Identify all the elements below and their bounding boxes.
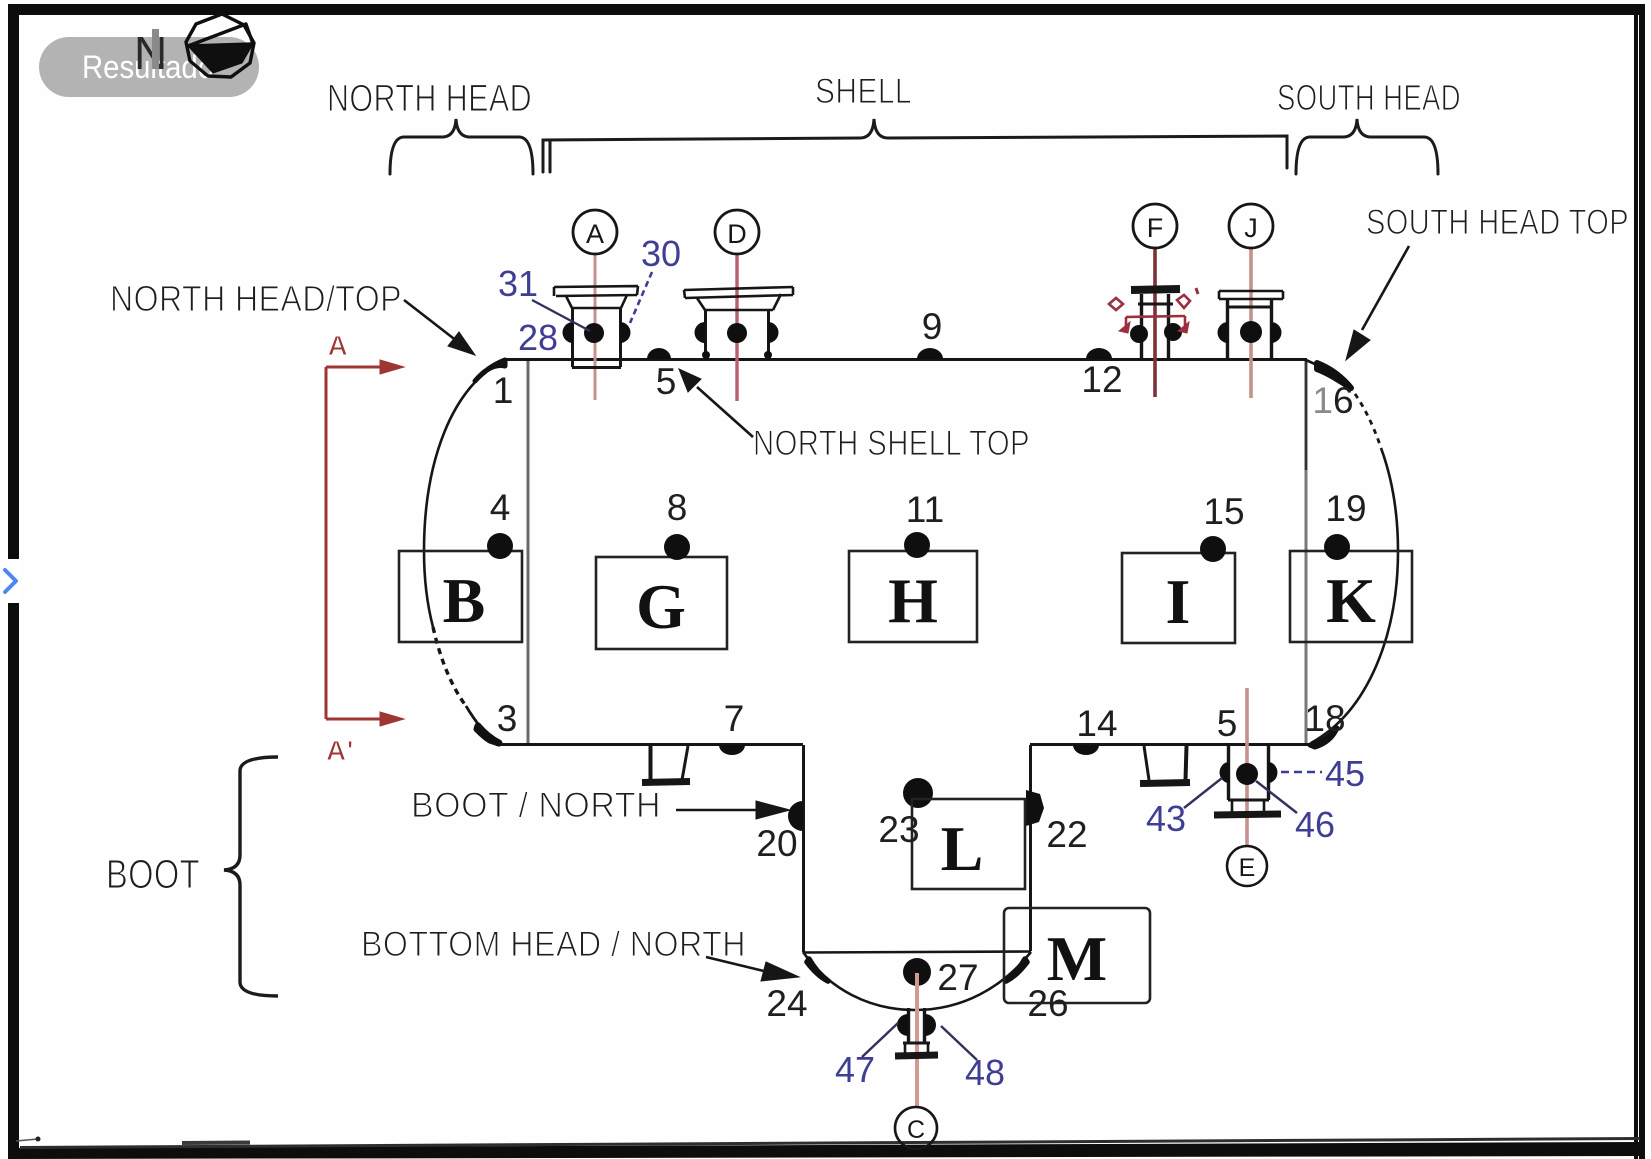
section box L <box>912 799 1025 889</box>
svg-text:NORTH SHELL TOP: NORTH SHELL TOP <box>753 424 1030 463</box>
north head curve <box>424 360 505 627</box>
boot bottom tangent line <box>803 952 1031 953</box>
south head seam weld line <box>1305 361 1308 743</box>
weld wedge 1 north head top <box>475 360 505 381</box>
nozzle E weld dots <box>1236 763 1258 785</box>
svg-text:E: E <box>1239 854 1256 882</box>
weld dot 15 <box>1200 536 1226 562</box>
leader line 46 <box>1256 781 1297 813</box>
arrow north head top <box>404 300 462 345</box>
svg-text:20: 20 <box>756 823 797 864</box>
north head curve tail <box>466 706 496 743</box>
svg-text:SOUTH HEAD TOP: SOUTH HEAD TOP <box>1366 203 1629 242</box>
weld wedge 3 north head bottom <box>477 726 499 743</box>
shell brace <box>543 119 1287 172</box>
north head seam weld line <box>527 361 530 743</box>
nozzle D tag circle <box>715 210 759 254</box>
nozzle C body <box>895 1008 938 1056</box>
compass rose <box>186 14 254 77</box>
svg-text:28: 28 <box>518 317 558 358</box>
svg-text:D: D <box>727 219 747 249</box>
weld wedge 26 boot dish east <box>1006 959 1027 981</box>
arrow south head top <box>1362 246 1409 330</box>
nozzle F weld dots <box>1130 325 1148 343</box>
svg-text:5: 5 <box>1217 703 1238 744</box>
leader line 30 <box>630 272 652 323</box>
north head curve dashed part <box>433 627 466 706</box>
south head curve main <box>1311 448 1398 743</box>
svg-text:45: 45 <box>1325 753 1365 794</box>
svg-text:48: 48 <box>965 1052 1005 1093</box>
nozzle C tag circle <box>895 1107 937 1149</box>
weld wedge 24 boot dish west <box>807 959 828 981</box>
arrow north shell top <box>697 387 753 437</box>
compass needle <box>188 44 253 73</box>
svg-text:N: N <box>134 27 167 79</box>
north head brace <box>390 119 533 174</box>
svg-text:3: 3 <box>497 698 518 739</box>
section cut line A <box>326 360 404 726</box>
nozzle F centerline <box>1153 248 1157 397</box>
svg-text:A': A' <box>326 735 354 766</box>
weld dot 23 <box>903 778 933 808</box>
boot bottom head dish <box>803 952 1031 1010</box>
svg-text:23: 23 <box>878 809 919 850</box>
nozzle D centerline <box>735 254 738 401</box>
section box I <box>1122 553 1235 643</box>
nozzle F tag circle <box>1133 204 1177 248</box>
svg-text:4: 4 <box>490 487 511 528</box>
svg-text:L: L <box>941 813 984 884</box>
section box M <box>1004 908 1150 1003</box>
leader line 47 <box>862 1023 898 1057</box>
svg-text:SOUTH HEAD: SOUTH HEAD <box>1277 77 1461 118</box>
svg-text:16: 16 <box>1312 380 1353 421</box>
section box H <box>849 551 977 642</box>
svg-text:46: 46 <box>1295 804 1335 845</box>
svg-text:BOTTOM HEAD / NORTH: BOTTOM HEAD / NORTH <box>361 925 746 964</box>
svg-text:A: A <box>586 219 604 249</box>
nozzle A centerline <box>594 254 597 400</box>
svg-text:30: 30 <box>641 233 681 274</box>
arrow bottom head north <box>706 957 768 972</box>
boot west wall <box>802 745 805 952</box>
svg-text:18: 18 <box>1304 698 1345 739</box>
weld dot 8 <box>664 534 690 560</box>
nozzle D weld dots <box>727 323 747 343</box>
weld dot 19 <box>1324 534 1350 560</box>
svg-text:24: 24 <box>766 983 807 1024</box>
shell top line <box>503 358 1307 361</box>
svg-text:SHELL: SHELL <box>815 72 912 111</box>
shell bottom line west <box>496 743 803 746</box>
weld dot 27 <box>903 958 931 986</box>
south head curve dashed part <box>1349 386 1381 448</box>
weld bump 9 <box>917 348 943 359</box>
section box B <box>399 551 522 642</box>
svg-text:12: 12 <box>1081 359 1122 400</box>
svg-text:9: 9 <box>922 306 943 347</box>
svg-text:15: 15 <box>1203 491 1244 532</box>
svg-text:I: I <box>1166 566 1191 637</box>
nozzle C centerline <box>915 973 919 1107</box>
svg-text:8: 8 <box>667 487 688 528</box>
svg-text:B: B <box>443 565 486 636</box>
nozzle J centerline <box>1249 248 1253 398</box>
support saddle east <box>1140 746 1190 784</box>
boot brace <box>224 757 278 996</box>
weld wedge 18 south head bottom <box>1310 728 1337 747</box>
svg-text:11: 11 <box>906 489 944 530</box>
leader line 43 <box>1184 778 1222 808</box>
svg-text:C: C <box>907 1116 925 1144</box>
weld bump 7 <box>719 745 745 755</box>
svg-text:26: 26 <box>1027 983 1068 1024</box>
svg-text:BOOT: BOOT <box>106 851 200 897</box>
svg-text:A: A <box>328 330 349 361</box>
south head brace <box>1296 119 1438 174</box>
nozzle A tag circle <box>573 210 617 254</box>
svg-text:27: 27 <box>937 957 978 998</box>
nozzle E centerline <box>1245 688 1249 846</box>
svg-text:NORTH HEAD/TOP: NORTH HEAD/TOP <box>110 278 402 319</box>
nozzle A body <box>554 286 638 368</box>
sidebar chevron <box>5 570 16 592</box>
svg-text:J: J <box>1244 213 1258 243</box>
svg-text:19: 19 <box>1325 488 1366 529</box>
nozzle A weld dots <box>584 323 604 343</box>
svg-text:K: K <box>1326 565 1376 636</box>
weld dot 20 on boot west wall <box>788 801 803 831</box>
svg-text:5: 5 <box>656 361 677 402</box>
section box K <box>1290 551 1412 642</box>
weld dot 22 on boot east wall <box>1026 790 1044 826</box>
support saddle west <box>642 746 690 783</box>
svg-text:14: 14 <box>1076 703 1117 744</box>
nozzle E tag circle <box>1227 846 1267 886</box>
leader line 31 <box>532 300 590 331</box>
nozzle J body <box>1219 291 1283 359</box>
svg-text:31: 31 <box>498 263 538 304</box>
boot east wall <box>1029 745 1032 951</box>
nozzle F red inspection marks <box>1109 288 1198 333</box>
nozzle J weld dots <box>1240 321 1262 343</box>
svg-text:F: F <box>1147 213 1164 243</box>
leader line 48 <box>941 1026 977 1060</box>
weld wedge 16 south head top <box>1317 363 1351 388</box>
weld bump 12 <box>1086 348 1112 359</box>
svg-text:43: 43 <box>1146 798 1186 839</box>
leader line 45 <box>1281 771 1322 774</box>
svg-text:BOOT / NORTH: BOOT / NORTH <box>411 786 661 825</box>
svg-text:1: 1 <box>493 370 514 411</box>
weld dot 11 <box>904 532 930 558</box>
nozzle J tag circle <box>1229 204 1273 248</box>
nozzle D body <box>684 287 793 359</box>
shell bottom line east <box>1030 743 1311 746</box>
weld bump 14 <box>1073 745 1099 755</box>
nozzle C weld dots <box>897 1014 908 1036</box>
svg-text:H: H <box>888 565 938 636</box>
svg-text:NORTH HEAD: NORTH HEAD <box>327 78 532 120</box>
svg-text:7: 7 <box>724 698 745 739</box>
nozzle E body <box>1214 746 1281 815</box>
weld dot 4 <box>487 533 513 559</box>
svg-text:G: G <box>636 571 686 642</box>
weld bump 5 <box>647 348 671 359</box>
south head curve <box>1306 360 1349 386</box>
Resultado button pill <box>39 37 259 97</box>
nozzle F body <box>1131 289 1180 359</box>
svg-text:47: 47 <box>835 1049 875 1090</box>
svg-text:22: 22 <box>1046 814 1087 855</box>
arrow boot north <box>676 809 760 812</box>
section box G <box>596 557 727 649</box>
